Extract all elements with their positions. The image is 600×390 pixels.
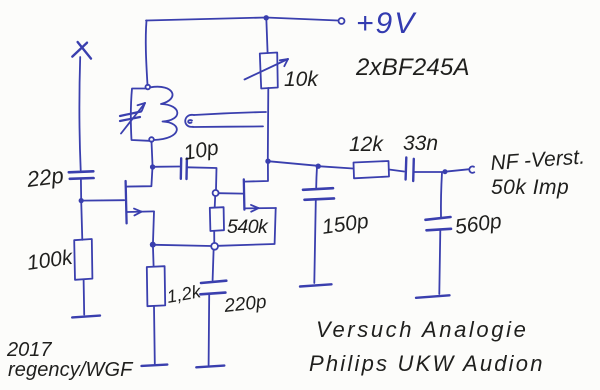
wire output line bbox=[268, 161, 318, 166]
node source/540k bbox=[211, 243, 218, 250]
wire to output terminal bbox=[445, 169, 468, 171]
wire gate Q1 bbox=[81, 199, 124, 201]
wire 100k to ground bbox=[83, 279, 86, 314]
capacitor C 33n bbox=[406, 158, 445, 182]
svg-text:12k: 12k bbox=[349, 133, 384, 156]
wire to 12k bbox=[318, 166, 353, 168]
resistor R 1,2k bbox=[147, 248, 165, 364]
resistor R 100k bbox=[74, 239, 92, 280]
variable capacitor C1 (tank) bbox=[120, 89, 149, 141]
transistor Q1 BF245A bbox=[126, 169, 154, 243]
inductor L1 (tank coil) bbox=[151, 87, 178, 140]
ground bbox=[300, 284, 332, 286]
capacitor C 22p bbox=[69, 171, 94, 179]
node 150p tap bbox=[316, 164, 321, 169]
svg-text:22p: 22p bbox=[25, 163, 65, 192]
node drain Q1 / tank bottom bbox=[150, 164, 155, 169]
node 560p tap bbox=[443, 169, 448, 174]
svg-text:560p: 560p bbox=[453, 210, 502, 239]
node gate Q1 junction bbox=[79, 198, 84, 203]
svg-text:10k: 10k bbox=[284, 68, 319, 91]
resistor R 540k bbox=[210, 196, 224, 243]
capacitor C 220p bbox=[200, 250, 226, 365]
capacitor C 560p bbox=[426, 172, 452, 294]
ground bbox=[196, 366, 224, 368]
node source Q1 bbox=[150, 242, 156, 248]
svg-text:+9V: +9V bbox=[356, 7, 417, 40]
node rail/10k bbox=[264, 15, 269, 20]
svg-text:540k: 540k bbox=[227, 216, 269, 238]
svg-text:10p: 10p bbox=[182, 136, 221, 165]
ground bbox=[72, 316, 100, 318]
transistor Q2 BF245A bbox=[244, 164, 276, 244]
capacitor C 10p bbox=[153, 158, 217, 189]
wire 12k to 33n bbox=[389, 170, 404, 172]
svg-text:220p: 220p bbox=[222, 292, 267, 317]
wire source line bbox=[218, 244, 274, 246]
node output bbox=[265, 159, 270, 164]
tuned circuit terminal bottom bbox=[149, 137, 154, 142]
svg-text:33n: 33n bbox=[403, 132, 438, 155]
potentiometer R 10k bbox=[245, 18, 289, 161]
tuned circuit terminal top bbox=[146, 85, 151, 90]
antenna bbox=[72, 42, 91, 170]
wire top rail +9V bbox=[146, 18, 338, 21]
resistor R 12k bbox=[354, 161, 390, 178]
wire antenna node to gate bbox=[81, 179, 82, 240]
svg-text:150p: 150p bbox=[320, 210, 369, 239]
wire rail to tank top bbox=[146, 21, 148, 86]
node gate Q2 bbox=[213, 190, 219, 196]
svg-text:Philips UKW Audion: Philips UKW Audion bbox=[309, 351, 545, 376]
wire gate Q2 bbox=[219, 192, 244, 194]
wire tank to drain node bbox=[152, 142, 153, 168]
terminal +9V bbox=[339, 18, 345, 24]
ground bbox=[416, 295, 450, 298]
svg-text:1,2k: 1,2k bbox=[165, 281, 203, 307]
svg-text:Versuch Analogie: Versuch Analogie bbox=[316, 317, 528, 342]
svg-text:50k Imp: 50k Imp bbox=[491, 176, 569, 199]
svg-text:100k: 100k bbox=[25, 246, 75, 275]
output terminal bbox=[469, 166, 474, 172]
svg-text:2017: 2017 bbox=[6, 339, 52, 361]
capacitor C 150p bbox=[303, 167, 334, 284]
svg-text:2xBF245A: 2xBF245A bbox=[355, 54, 470, 81]
wire source line left bbox=[156, 245, 212, 246]
svg-text:regency/WGF: regency/WGF bbox=[8, 359, 134, 381]
ground bbox=[142, 365, 168, 366]
svg-text:NF -Verst.: NF -Verst. bbox=[490, 145, 586, 175]
coupling coil L2 bbox=[185, 112, 266, 127]
